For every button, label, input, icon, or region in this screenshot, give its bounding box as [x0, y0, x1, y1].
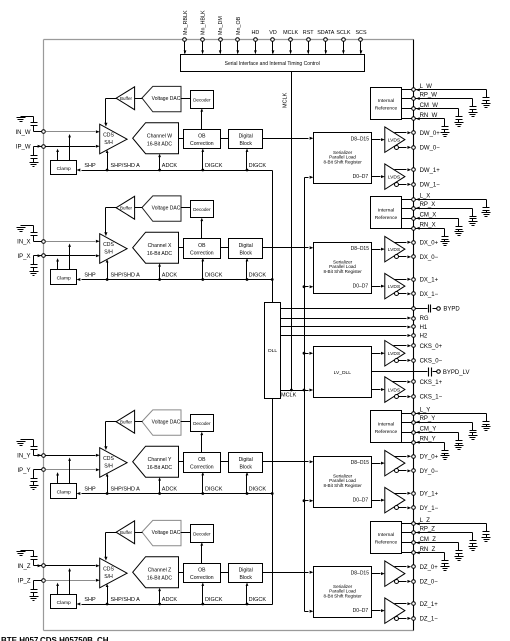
svg-text:S/H: S/H	[104, 574, 113, 580]
svg-text:D8–D15: D8–D15	[351, 246, 370, 252]
svg-text:LVDS: LVDS	[388, 137, 401, 143]
svg-text:Mn_DM: Mn_DM	[218, 16, 224, 35]
ground	[30, 272, 39, 276]
svg-text:DX_0−: DX_0−	[420, 255, 439, 261]
pin IN_W	[16, 130, 46, 136]
wire clamp output to IN line	[68, 134, 71, 161]
CDS S/H amplifier (channel X)	[100, 234, 127, 264]
svg-text:S/H: S/H	[104, 250, 113, 256]
wire digital block to serializer	[263, 571, 314, 574]
capacitor (IN_Y input coupling)	[21, 440, 42, 456]
pin RN_Z	[412, 547, 436, 554]
capacitor (RP_Y decoupling)	[470, 423, 477, 436]
inverter bubble	[395, 469, 399, 473]
svg-text:LVDS: LVDS	[388, 174, 401, 180]
capacitor (L_X decoupling)	[483, 200, 490, 213]
svg-text:OB: OB	[198, 243, 206, 249]
svg-text:Reference: Reference	[375, 540, 398, 546]
svg-text:IP_W: IP_W	[16, 145, 31, 151]
pin CKS_1+	[412, 380, 443, 386]
wire reference pin RN_X	[402, 227, 445, 230]
wire clamp output to IP line	[56, 472, 59, 483]
CDS S/H amplifier (channel Y)	[100, 448, 127, 478]
LVDS driver 0 (channel Y)	[385, 450, 405, 476]
wire voltage DAC to buffer	[135, 98, 143, 100]
capacitor (IP_Z input coupling)	[31, 581, 42, 597]
wire reference pin CM_Y	[402, 431, 459, 434]
buffer amplifier (channel W)	[116, 87, 135, 110]
serializer block (channel X)	[314, 243, 372, 294]
capacitor (CM_W decoupling)	[456, 109, 463, 123]
serial interface and internal timing control block	[181, 55, 365, 72]
pin DY_1+	[412, 491, 439, 497]
svg-text:CKS_1+: CKS_1+	[420, 380, 443, 386]
capacitor (RN_Z decoupling)	[442, 553, 449, 567]
serializer block (channel Y)	[314, 457, 372, 508]
svg-text:SHP: SHP	[84, 163, 96, 169]
pin RP_Y	[412, 416, 436, 424]
ground	[30, 597, 39, 601]
pin H2	[412, 334, 428, 340]
voltage DAC (channel Y)	[142, 410, 181, 435]
pin IP_W	[16, 145, 45, 151]
pin L_W	[412, 84, 433, 91]
svg-text:Mn_OB: Mn_OB	[236, 16, 242, 35]
inverter bubble	[395, 255, 399, 259]
ground	[455, 123, 464, 127]
ADC (channel Z 16-bit)	[133, 557, 179, 588]
pin IN_Z	[17, 564, 45, 570]
capacitor (RP_X decoupling)	[470, 209, 477, 222]
svg-text:IN_Y: IN_Y	[17, 453, 30, 459]
pin DX_0+	[412, 240, 439, 246]
svg-text:CDS: CDS	[103, 567, 114, 573]
wire voltage DAC to decoder	[181, 532, 191, 534]
pin CM_X	[412, 212, 437, 220]
svg-text:Block: Block	[239, 141, 252, 147]
pin RP_X	[412, 202, 436, 210]
svg-text:IP_X: IP_X	[17, 254, 30, 260]
wire clamp output to IN line	[68, 244, 71, 270]
wire OB correction to digital block	[221, 138, 229, 140]
capacitor (IN_X input coupling)	[21, 226, 42, 242]
pin DY_0+	[412, 454, 439, 460]
svg-text:Digital: Digital	[239, 243, 253, 249]
svg-text:DZ_0+: DZ_0+	[420, 565, 439, 571]
pin CM_W	[412, 103, 439, 110]
svg-text:H1: H1	[420, 325, 428, 331]
svg-text:DX_1−: DX_1−	[420, 292, 439, 298]
ground	[469, 113, 478, 117]
wire reference pin CM_W	[402, 107, 459, 110]
svg-text:Voltage DAC: Voltage DAC	[152, 420, 181, 426]
chip right edge rail	[413, 40, 415, 631]
svg-text:SHP/SHD A: SHP/SHD A	[111, 163, 141, 169]
chip outline (left/top/bottom, gray)	[44, 40, 414, 631]
wire serializer to LVDS	[372, 175, 385, 178]
wire SHP/SHD A to CDS	[106, 473, 109, 495]
svg-text:DIGCK: DIGCK	[205, 272, 223, 278]
LVDS driver 1 (channel Y)	[385, 487, 405, 513]
ground	[482, 104, 491, 108]
wire OB correction to digital block	[221, 572, 229, 574]
wire LVDS+ to pin CKS_1+	[393, 380, 412, 383]
ground	[30, 486, 39, 490]
wire LVDS- to pin DY_1-	[399, 506, 412, 509]
svg-text:Reference: Reference	[375, 215, 398, 221]
ADC (channel X 16-bit)	[133, 232, 179, 263]
wire OB correction to decoder	[200, 432, 203, 453]
ADC (channel Y 16-bit)	[133, 446, 179, 477]
pin CM_Y	[412, 426, 437, 434]
svg-text:S/H: S/H	[104, 464, 113, 470]
wire clamp output to IP line	[56, 149, 59, 161]
wire IP_Z to CDS	[46, 579, 100, 582]
pin HD (top)	[252, 30, 260, 54]
voltage DAC (channel X)	[142, 196, 181, 221]
svg-text:Clamp: Clamp	[57, 600, 71, 606]
wire LVDS+ to pin DW_1+	[395, 168, 412, 171]
serializer block (channel Z)	[314, 567, 372, 618]
pin BYPD_LV	[433, 370, 470, 376]
LV_DLL block	[314, 347, 372, 398]
pin IN_Y	[17, 453, 45, 459]
wire ADCK to ADC	[158, 154, 161, 172]
wire DLL to BYPD	[281, 308, 428, 310]
wire ADC to OB correction	[179, 461, 184, 463]
digital block (channel Y)	[229, 453, 263, 473]
svg-text:Clamp: Clamp	[57, 275, 71, 281]
svg-text:IN_X: IN_X	[17, 239, 30, 245]
capacitor (RN_X decoupling)	[442, 229, 449, 242]
svg-text:SHP: SHP	[84, 272, 96, 278]
wire reference pin CM_X	[402, 217, 459, 220]
svg-text:Voltage DAC: Voltage DAC	[152, 206, 181, 212]
capacitor (L_W decoupling)	[483, 90, 490, 104]
capacitor (L_Y decoupling)	[483, 414, 490, 427]
pin RN_W	[412, 113, 438, 120]
svg-text:DY_1+: DY_1+	[420, 491, 439, 497]
capacitor (IP_X input coupling)	[31, 256, 42, 272]
pin L_Y	[412, 408, 431, 416]
wire LVDS+ to pin DX_1+	[395, 278, 412, 281]
LVDS driver 1 (channel W)	[385, 164, 405, 190]
svg-text:Decoder: Decoder	[193, 207, 211, 212]
capacitor (L_Z decoupling)	[483, 524, 490, 538]
svg-text:DW_1+: DW_1+	[420, 168, 441, 174]
wire DLL to H1	[281, 326, 412, 329]
svg-text:Voltage DAC: Voltage DAC	[152, 530, 181, 536]
svg-text:IP_Y: IP_Y	[17, 468, 30, 474]
LVDS driver 0 (channel Z)	[385, 561, 405, 587]
LVDS clock driver 0	[385, 341, 405, 367]
svg-text:RP_X: RP_X	[420, 202, 436, 208]
capacitor (BYPD_LV bypass)	[429, 368, 432, 377]
wire ADC to OB correction	[179, 247, 184, 249]
svg-text:Internal: Internal	[378, 532, 394, 538]
pin DW_1&#8722;	[412, 182, 441, 188]
pin CM_Z	[412, 537, 437, 544]
ground	[455, 446, 464, 450]
wire buffer to CDS	[104, 422, 116, 451]
svg-text:BTE H057: BTE H057	[1, 636, 39, 641]
decoder block (channel X)	[191, 201, 214, 218]
pin DW_0+	[412, 131, 441, 137]
wire serializer to LVDS	[372, 462, 385, 465]
svg-text:Block: Block	[239, 465, 252, 471]
capacitor (RP_Z decoupling)	[470, 533, 477, 547]
svg-text:SHP: SHP	[84, 486, 96, 492]
pin H1	[412, 325, 428, 331]
svg-text:ADCK: ADCK	[162, 163, 178, 169]
LVDS clock driver 1	[385, 377, 405, 403]
wire DIGCK to digital block	[246, 258, 249, 281]
ground	[441, 456, 450, 460]
pin SDATA (top)	[317, 30, 335, 54]
pin DZ_1+	[412, 602, 439, 608]
svg-text:Internal: Internal	[378, 208, 394, 214]
pin Mn_OB (top, rotated label)	[236, 16, 242, 54]
svg-text:CKS_0−: CKS_0−	[420, 358, 443, 364]
svg-text:DIGCK: DIGCK	[249, 486, 267, 492]
svg-text:Buffer: Buffer	[120, 96, 132, 101]
svg-text:ADCK: ADCK	[162, 597, 178, 603]
svg-text:Correction: Correction	[190, 141, 214, 147]
wire IN_W to CDS	[46, 130, 100, 133]
capacitor (BYPD bypass)	[429, 305, 431, 313]
wire LVDS+ to pin DZ_1+	[395, 602, 412, 605]
inverter bubble	[395, 506, 399, 510]
ground	[441, 133, 450, 137]
ground	[469, 222, 478, 226]
wire LVDS+ to pin DY_0+	[395, 455, 412, 458]
wire LVDS- to pin CKS_0-	[399, 359, 412, 362]
pin RST (top)	[303, 30, 314, 54]
svg-text:IP_Z: IP_Z	[18, 579, 31, 585]
decoder block (channel Y)	[191, 415, 214, 432]
svg-text:RN_Y: RN_Y	[420, 437, 436, 443]
digital block (channel W)	[229, 130, 263, 149]
voltage DAC (channel Z)	[142, 520, 181, 545]
svg-text:Internal: Internal	[378, 422, 394, 428]
svg-text:DLL: DLL	[268, 348, 277, 354]
svg-text:LVDS: LVDS	[388, 284, 401, 290]
buffer amplifier (channel Y)	[116, 410, 135, 433]
svg-text:IN_Z: IN_Z	[17, 564, 30, 570]
svg-text:MCLK: MCLK	[283, 30, 298, 36]
wire serializer clock (elbow top)	[305, 176, 314, 179]
wire OB correction to digital block	[221, 247, 229, 249]
svg-text:OB: OB	[198, 457, 206, 463]
wire DIGCK to OB correction	[201, 149, 204, 172]
wire serializer to LVDS	[372, 248, 385, 251]
svg-text:CDS: CDS	[103, 133, 114, 139]
svg-text:L_Y: L_Y	[420, 408, 431, 414]
svg-text:RP_W: RP_W	[420, 93, 438, 99]
svg-text:16-Bit ADC: 16-Bit ADC	[147, 141, 173, 147]
svg-text:CM_Z: CM_Z	[420, 537, 437, 543]
wire LV_DLL to LVDS	[372, 352, 385, 355]
wire buffer to CDS	[104, 533, 116, 561]
wire IP_X to CDS	[46, 254, 100, 257]
OB correction block (channel Z)	[184, 564, 221, 583]
wire reference pin RN_W	[402, 117, 445, 120]
svg-text:LVDS: LVDS	[388, 351, 401, 357]
svg-text:SHP/SHD A: SHP/SHD A	[111, 597, 141, 603]
svg-text:CDS: CDS	[103, 242, 114, 248]
wire reference pin CM_Z	[402, 541, 459, 544]
wire SHP control bus (channel W)	[77, 163, 273, 172]
svg-text:Digital: Digital	[239, 134, 253, 140]
svg-text:16-Bit ADC: 16-Bit ADC	[147, 575, 173, 581]
pin Mn_DM (top, rotated label)	[218, 16, 224, 54]
svg-text:D0–D7: D0–D7	[353, 174, 369, 180]
wire buffer to CDS	[104, 99, 116, 127]
ground	[469, 436, 478, 440]
capacitor (CM_X decoupling)	[456, 219, 463, 232]
wire LV_DLL to LVDS	[372, 388, 385, 391]
wire clamp output to IN line	[68, 568, 71, 595]
ground	[17, 228, 26, 232]
LVDS driver 0 (channel X)	[385, 236, 405, 262]
inverter bubble	[395, 183, 399, 187]
svg-text:LVDS: LVDS	[388, 247, 401, 253]
wire serializer clock (elbow bottom)	[305, 610, 314, 613]
wire clamp output to IP line	[56, 258, 59, 269]
pin RG	[412, 316, 429, 322]
wire IN_X to CDS	[46, 240, 100, 243]
wire DIGCK to OB correction	[201, 258, 204, 281]
pin MCLK (top)	[283, 30, 298, 54]
svg-text:RG: RG	[420, 316, 429, 322]
svg-text:LV_DLL: LV_DLL	[334, 370, 352, 376]
OB correction block (channel X)	[184, 239, 221, 259]
pin IP_X	[17, 254, 45, 260]
inverter bubble	[395, 617, 399, 621]
svg-text:Clamp: Clamp	[57, 166, 71, 172]
svg-text:LVDS: LVDS	[388, 387, 401, 393]
wire OB correction to digital block	[221, 461, 229, 463]
svg-text:RP_Z: RP_Z	[420, 527, 436, 533]
ground	[482, 427, 491, 431]
pin DW_1+	[412, 168, 441, 174]
capacitor (IP_W input coupling)	[31, 147, 42, 163]
node (Y bus junction)	[271, 492, 274, 495]
wire LVDS- to pin DX_0-	[399, 255, 412, 258]
wire LVDS- to pin DY_0-	[399, 469, 412, 472]
pin DX_1&#8722;	[412, 292, 439, 298]
ground	[455, 232, 464, 236]
svg-text:L_X: L_X	[420, 194, 431, 200]
capacitor (IN_Z input coupling)	[21, 551, 42, 566]
svg-text:DIGCK: DIGCK	[249, 163, 267, 169]
svg-text:HD: HD	[252, 30, 260, 36]
svg-text:Channel W: Channel W	[147, 134, 172, 140]
svg-text:ADCK: ADCK	[162, 486, 178, 492]
CDS S/H amplifier (channel Z)	[100, 558, 127, 588]
ground	[17, 552, 26, 556]
svg-text:Internal: Internal	[378, 98, 394, 104]
svg-text:Mn_HBLK: Mn_HBLK	[201, 10, 207, 35]
ground	[482, 538, 491, 542]
clamp block (channel W)	[51, 161, 77, 175]
svg-text:S/H: S/H	[104, 140, 113, 146]
svg-text:D0–D7: D0–D7	[353, 498, 369, 504]
wire voltage DAC to decoder	[181, 207, 191, 209]
svg-text:Buffer: Buffer	[120, 530, 132, 535]
wire SHP/SHD A to CDS	[106, 150, 109, 172]
wire ADCK to ADC	[158, 477, 161, 495]
svg-text:RP_Y: RP_Y	[420, 416, 436, 422]
svg-text:Channel Z: Channel Z	[148, 568, 172, 574]
wire SHP/SHD A to CDS	[106, 584, 109, 606]
wire ADC to OB correction	[179, 138, 184, 140]
svg-text:CKS_1−: CKS_1−	[420, 395, 443, 401]
svg-text:DY_0−: DY_0−	[420, 469, 439, 475]
DLL block	[265, 303, 281, 399]
capacitor (CM_Z decoupling)	[456, 543, 463, 557]
svg-text:SCS: SCS	[355, 30, 366, 36]
svg-text:DZ_1−: DZ_1−	[420, 616, 439, 622]
wire OB correction to decoder	[200, 218, 203, 239]
wire voltage DAC to buffer	[135, 532, 143, 534]
svg-text:D8–D15: D8–D15	[351, 570, 370, 576]
wire LVDS- to pin CKS_1-	[399, 395, 412, 398]
wire IN_Y to CDS	[46, 454, 100, 457]
wire ADCK to ADC	[158, 263, 161, 281]
svg-text:Serial Interface and Internal: Serial Interface and Internal Timing Con…	[225, 61, 320, 67]
decoder block (channel Z)	[191, 525, 214, 543]
clamp block (channel Z)	[51, 595, 77, 609]
capacitor (CM_Y decoupling)	[456, 433, 463, 446]
svg-text:16-Bit ADC: 16-Bit ADC	[147, 465, 173, 471]
svg-text:SHP/SHD A: SHP/SHD A	[111, 486, 141, 492]
svg-text:Clamp: Clamp	[57, 489, 71, 495]
inverter bubble	[395, 395, 399, 399]
clamp block (channel Y)	[51, 484, 77, 499]
capacitor (IP_Y input coupling)	[31, 470, 42, 486]
wire reference pin L_Y	[402, 412, 487, 415]
wire MCLK vertical (serial block to DLL/LV_DLL)	[283, 72, 292, 391]
capacitor (RN_W decoupling)	[442, 119, 449, 133]
OB correction block (channel Y)	[184, 453, 221, 473]
capacitor (RP_W decoupling)	[470, 99, 477, 113]
caption text (clipped at page bottom)	[1, 636, 109, 641]
wire SHP/SHD A to CDS	[106, 259, 109, 281]
wire DLL to H2	[281, 334, 412, 337]
pin VD (top)	[269, 30, 277, 54]
svg-text:RN_X: RN_X	[420, 223, 436, 229]
wire LVDS+ to pin DX_0+	[395, 241, 412, 244]
ground	[441, 567, 450, 571]
ground	[482, 213, 491, 217]
pin DZ_0+	[412, 565, 439, 571]
wire OB correction to decoder	[200, 542, 203, 563]
pin L_Z	[412, 518, 431, 525]
svg-text:Reference: Reference	[375, 429, 398, 435]
wire LVDS- to pin DZ_1-	[399, 617, 412, 620]
wire clock bus vertical lower (DLL bottom to Y/Z buses)	[272, 399, 274, 605]
svg-text:Channel Y: Channel Y	[148, 457, 172, 463]
buffer amplifier (channel X)	[116, 196, 135, 219]
wire LVDS- to pin DW_1-	[399, 183, 412, 186]
svg-text:IN_W: IN_W	[16, 130, 31, 136]
svg-text:Decoder: Decoder	[193, 98, 211, 103]
pin DY_1&#8722;	[412, 506, 439, 512]
wire DIGCK to OB correction	[201, 472, 204, 495]
wire reference pin RP_Z	[402, 531, 473, 534]
ADC (channel W 16-bit)	[133, 123, 179, 154]
